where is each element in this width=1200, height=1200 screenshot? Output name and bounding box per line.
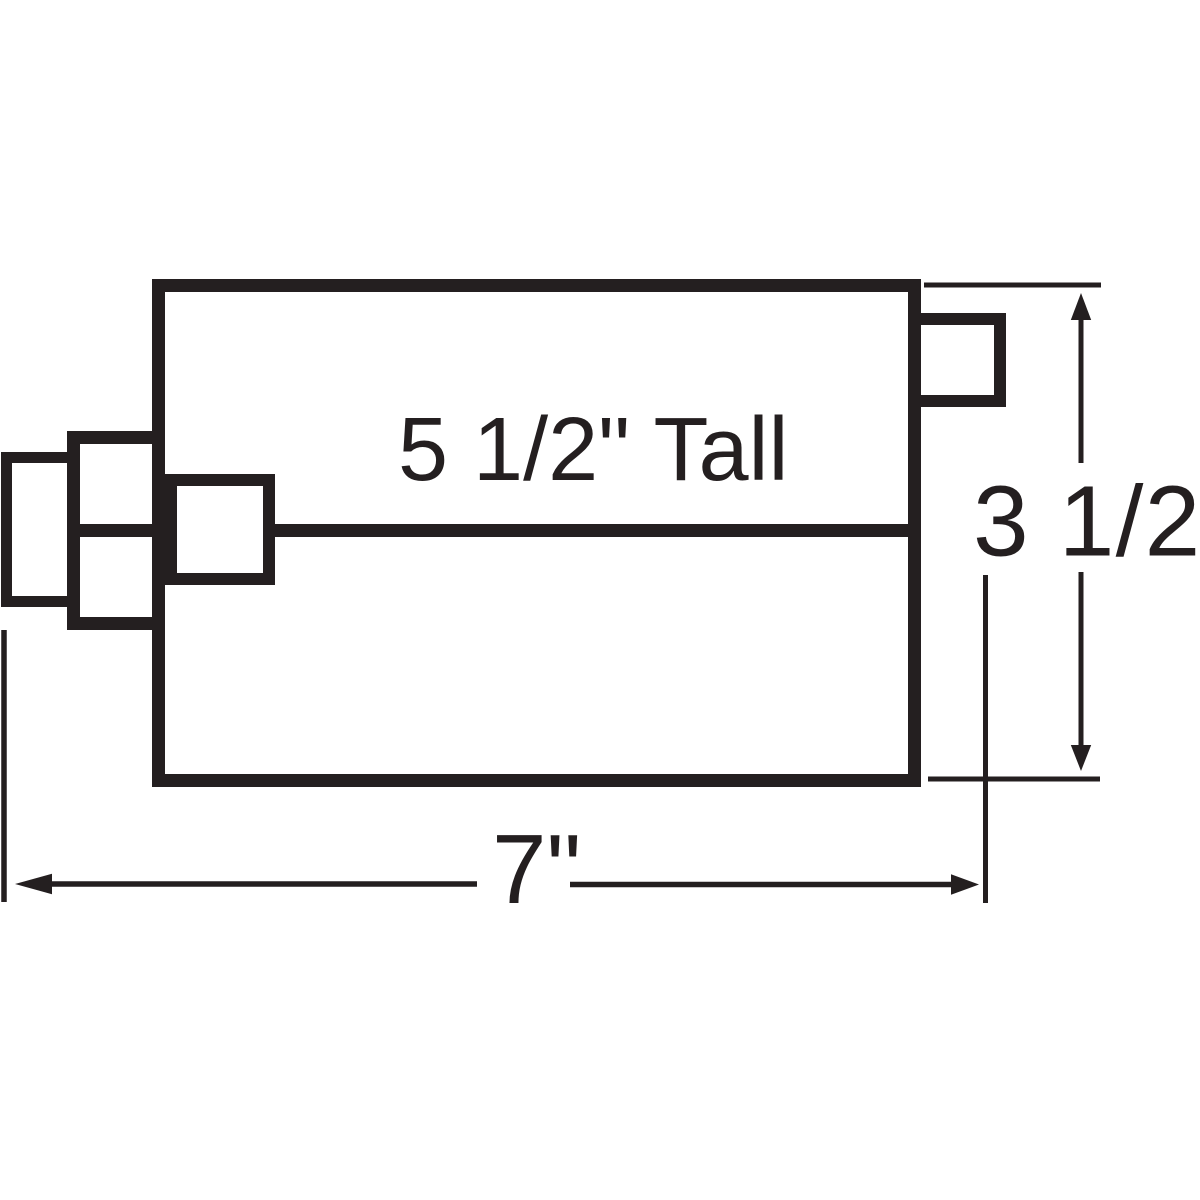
muffler body outline (159, 286, 915, 781)
outlet pipe square (top right) (915, 319, 1000, 401)
extension line top right (924, 283, 1101, 288)
3 1/2 dimension line lower segment (1079, 572, 1084, 755)
svg-text:3 1/2": 3 1/2" (973, 466, 1200, 578)
svg-text:5 1/2" Tall: 5 1/2" Tall (398, 400, 789, 500)
7 inch dimension line left segment (40, 881, 477, 887)
extension line left vertical (for 7 inch) (1, 630, 7, 902)
3 1/2 dimension arrow up (1071, 293, 1091, 320)
7 inch dimension line right segment (570, 882, 955, 888)
3 1/2 dimension line upper segment (1079, 312, 1084, 463)
inlet bushing (middle box) (74, 438, 159, 624)
7 inch dimension arrow right (951, 874, 979, 895)
svg-text:7": 7" (492, 814, 581, 924)
7 inch dimension arrow left (15, 874, 52, 894)
3 1/2 dimension arrow down (1071, 745, 1091, 771)
pipe centerline through body (70, 524, 908, 537)
extension line right vertical (for 7 inch) (983, 575, 988, 903)
extension line bottom right (928, 777, 1100, 782)
inlet pipe end (left small box) (7, 458, 75, 602)
inner baffle square (171, 480, 269, 579)
